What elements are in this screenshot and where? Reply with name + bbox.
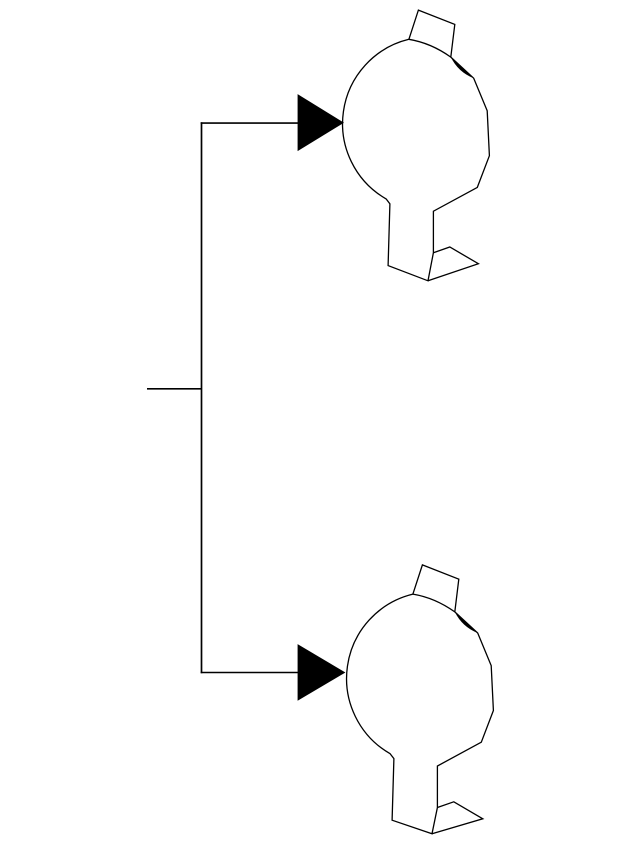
bulb B2 (bottom): foot flap bbox=[432, 802, 483, 834]
wire: vertical bus bbox=[201, 122, 203, 673]
bulb B1 (top): neck shade band bbox=[451, 57, 474, 78]
bulb B2 (bottom): tab bbox=[413, 565, 459, 612]
wire: bottom branch bbox=[201, 672, 299, 674]
wire: left stub bbox=[147, 388, 202, 390]
arrow: top pointer bbox=[298, 94, 344, 151]
bulb B1 (top): body outline bbox=[343, 39, 490, 280]
wire: top branch bbox=[201, 122, 299, 124]
bulb B1 (top): tab bbox=[409, 10, 455, 57]
bulb B1 (top): foot flap bbox=[428, 247, 478, 281]
bulb B2 (bottom): neck shade band bbox=[455, 612, 478, 633]
bulb B2 (bottom): body outline bbox=[347, 594, 494, 834]
arrow: bottom pointer bbox=[298, 644, 346, 701]
